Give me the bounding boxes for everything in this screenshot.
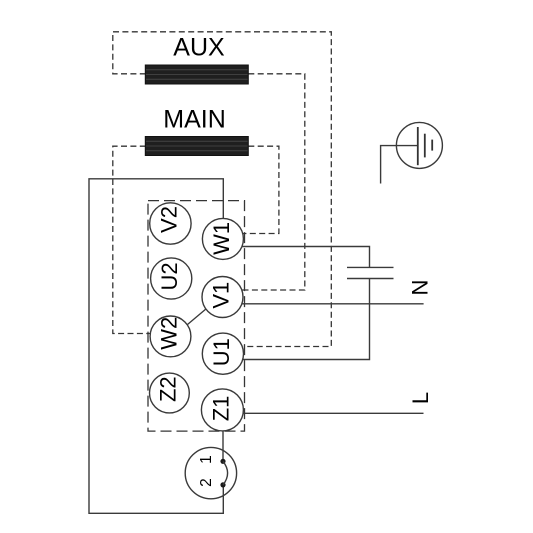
thermal protector circle [185,447,236,498]
terminal U1 [202,333,243,374]
terminal W2 [150,316,191,357]
wire jumper between terminals W2 and V1 (diagonal) [188,309,207,325]
terminal Z1 [201,389,243,431]
svg-text:V1: V1 [209,282,234,309]
svg-text:N: N [408,280,433,296]
wire L from terminal Z1 to the right [243,412,423,414]
terminal W1 [202,218,243,259]
wire from terminal W1 up and around left side to thermal protector (solid loop) [89,179,223,514]
winding AUX [145,65,248,84]
ground symbol [381,122,443,183]
wire from AUX winding left terminal to terminal U1 (dashed) [113,32,331,347]
svg-text:U2: U2 [157,262,182,290]
terminal U2 [151,258,192,299]
wire from terminal Z1 down to thermal protector contact 1 [222,431,224,462]
wire from MAIN winding left terminal to terminal W2 (dashed) [113,146,151,333]
svg-text:W2: W2 [157,317,182,350]
wire N from terminal V1 to the right [242,303,423,305]
svg-text:MAIN: MAIN [163,106,226,134]
svg-text:U1: U1 [209,338,234,366]
svg-text:L: L [408,392,433,404]
wire from capacitor bottom plate down and left to terminal U1 [243,279,370,360]
svg-text:1: 1 [198,455,215,464]
terminal Z2 [150,373,190,413]
wire from terminal W1 right to capacitor top plate [242,247,370,268]
winding MAIN [145,137,248,156]
svg-text:2: 2 [198,478,215,487]
svg-text:Z2: Z2 [155,376,180,402]
svg-text:W1: W1 [209,222,234,255]
wire from AUX winding right terminal to terminal V1 (dashed) [243,74,305,290]
terminal V2 [150,203,191,244]
terminal block outline (dashed rectangle) [148,201,245,432]
svg-text:Z1: Z1 [208,396,233,422]
thermal protector switch blade (arc between contacts) [223,461,228,485]
terminal V1 [202,277,243,318]
svg-text:V2: V2 [156,206,181,233]
svg-text:AUX: AUX [173,34,225,62]
thermal protector contact dot pin 2 [220,482,225,487]
thermal protector contact dot pin 1 [220,459,225,464]
capacitor C1 [347,267,394,278]
wire from MAIN winding right terminal to terminal W1 (dashed) [242,146,279,233]
